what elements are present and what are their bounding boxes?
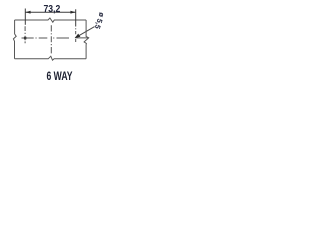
horizontal centerline through mounting holes <box>22 37 89 39</box>
bottom edge with break zigzag <box>15 56 87 60</box>
top edge with break zigzag <box>15 18 87 22</box>
leader arrowhead <box>75 34 81 39</box>
left edge with break jog <box>13 20 16 59</box>
right edge with break jog <box>84 20 89 59</box>
left dimension arrowhead <box>25 11 30 14</box>
right dimension arrowhead <box>70 11 75 14</box>
svg-text:ø 5,5: ø 5,5 <box>93 11 107 30</box>
left hole vertical centerline <box>24 26 26 43</box>
part body outline (broken view) <box>13 18 88 60</box>
svg-text:6 WAY: 6 WAY <box>47 69 73 83</box>
dimension line <box>25 11 75 13</box>
centerlines (dash-dot) <box>22 25 89 53</box>
right extension line <box>75 9 77 26</box>
middle break centerline <box>50 25 52 53</box>
left hole center mark <box>24 37 27 40</box>
dimension 73,2 <box>25 9 75 27</box>
svg-text:73,2: 73,2 <box>44 4 61 15</box>
left extension line <box>24 9 26 25</box>
right hole vertical centerline <box>75 28 77 42</box>
leader line for hole diameter <box>75 27 94 38</box>
